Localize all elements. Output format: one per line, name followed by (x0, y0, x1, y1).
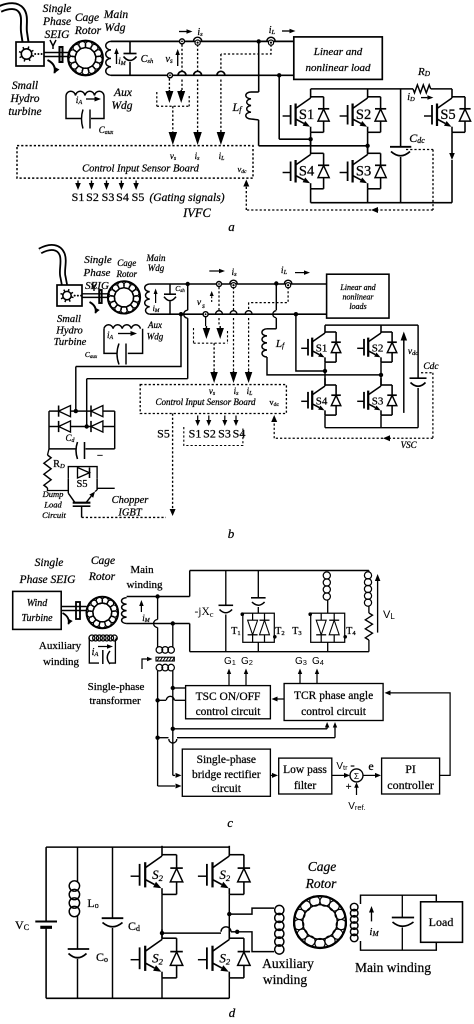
svg-text:(Gating signals): (Gating signals) (149, 192, 224, 204)
svg-text:nonlinear: nonlinear (342, 293, 374, 302)
iM arrow b (155, 294, 157, 303)
svg-text:Vref.: Vref. (348, 801, 366, 812)
svg-text:−: − (97, 450, 103, 462)
inductor Lo (77, 847, 79, 882)
CT is on top bus (193, 37, 201, 41)
load box d (421, 902, 463, 943)
svg-text:nonlinear load: nonlinear load (305, 62, 371, 74)
svg-text:Linear and: Linear and (313, 46, 363, 58)
aux loop c (89, 639, 99, 663)
svg-text:Wdg: Wdg (147, 332, 164, 342)
main winding coil d (350, 903, 358, 911)
svg-text:Low pass: Low pass (283, 764, 327, 776)
svg-text:VSC: VSC (401, 440, 418, 450)
TCR feed wires (173, 728, 327, 730)
svg-text:Cage: Cage (308, 859, 337, 874)
svg-text:transformer: transformer (89, 695, 141, 707)
svg-text:Single: Single (43, 3, 72, 15)
aux loop and Caux b (104, 329, 117, 354)
svg-text:Rotor: Rotor (116, 269, 138, 279)
gating arrows b (197, 416, 199, 421)
capacitor Csh (129, 41, 131, 53)
Vref input (356, 787, 358, 795)
gating signal arrows (77, 181, 79, 184)
svg-text:Cdc: Cdc (423, 362, 439, 372)
left leg mid junction d (161, 895, 163, 939)
svg-text:Phase: Phase (42, 16, 71, 28)
svg-text:Rotor: Rotor (305, 876, 337, 891)
cage rotor b (108, 281, 140, 313)
bridge bottom rail b (325, 427, 418, 429)
svg-text:S3: S3 (356, 164, 371, 180)
dump bottom wires (48, 488, 69, 491)
bridge bottom rail (311, 202, 452, 204)
svg-text:S5: S5 (440, 107, 455, 123)
rectifier box (182, 749, 270, 796)
TSC capacitor branch (257, 571, 259, 598)
bridge top rail b (325, 324, 418, 326)
svg-text:Main: Main (146, 253, 166, 263)
svg-text:S3: S3 (372, 396, 384, 408)
node on top bus for Lf (257, 39, 261, 43)
svg-text:S2: S2 (372, 343, 384, 355)
bridge top rail (311, 88, 413, 90)
svg-text:filter: filter (294, 780, 317, 792)
PI controller box (382, 758, 440, 794)
small hydro turbine box b (57, 285, 82, 306)
svg-text:Σ: Σ (354, 771, 359, 781)
capacitor main d (401, 895, 403, 917)
iL dashed to board (221, 45, 271, 55)
svg-text:winding: winding (126, 579, 163, 591)
svg-text:Control Input Sensor Board: Control Input Sensor Board (82, 163, 200, 174)
aux winding connection wires d (229, 908, 274, 914)
svg-text:S3: S3 (102, 190, 115, 204)
diode bridge dump load (48, 411, 50, 449)
svg-text:bridge rectifier: bridge rectifier (192, 769, 261, 781)
svg-text:a: a (228, 219, 235, 234)
wire to node1 b (296, 314, 325, 371)
resistor RD dump (44, 455, 51, 488)
main circuit wires d (361, 895, 437, 904)
svg-text:d: d (229, 1005, 236, 1020)
svg-text:turbine: turbine (8, 106, 41, 118)
rotation arrow b (90, 302, 96, 313)
node1 junction (310, 132, 312, 145)
svg-text:Turbine: Turbine (54, 337, 87, 348)
wind turbine box (13, 591, 62, 629)
resistor RD (413, 85, 431, 93)
vdc feedback dashed b (421, 372, 433, 374)
top bus b (150, 283, 327, 285)
IGBT S2 bottom-left d (131, 959, 140, 961)
bottom bus b (150, 313, 327, 315)
TCR control box (284, 684, 383, 721)
CT iL on top bus (267, 37, 275, 41)
S4 S3 emitter wires b (324, 415, 326, 428)
svg-text:Single-phase: Single-phase (88, 681, 145, 693)
svg-text:TSC ON/OFF: TSC ON/OFF (196, 691, 261, 703)
svg-text:circuit: circuit (212, 783, 242, 795)
TCR inductor branch (323, 572, 330, 579)
node on bottom bus (277, 73, 281, 77)
svg-text:Single: Single (84, 254, 112, 266)
svg-text:winding: winding (263, 972, 308, 987)
seig top wire c (127, 596, 190, 598)
low pass filter box (279, 758, 332, 794)
svg-text:Hydro: Hydro (55, 326, 82, 337)
dashed bracket S1-S4 (184, 427, 243, 446)
svg-text:SEIG: SEIG (45, 29, 71, 41)
dump load feed wires (179, 312, 183, 316)
svg-text:Cage: Cage (75, 12, 99, 24)
TCR to TSC wire (277, 698, 284, 700)
thyristor pair T3 T4 (311, 613, 345, 642)
S5 emitter arrow down (451, 132, 453, 153)
IGBT S3 (340, 172, 348, 174)
svg-text:S1: S1 (189, 427, 202, 441)
bottom emitters to rail d (161, 978, 163, 998)
IGBT S1 b (301, 347, 308, 349)
chopper S5 with diode (68, 467, 97, 479)
svg-text:TCR phase angle: TCR phase angle (294, 690, 373, 702)
svg-text:c: c (227, 815, 233, 830)
svg-text:-jXc: -jXc (194, 606, 213, 619)
load box Linear and nonlinear load (294, 37, 383, 80)
aux winding coil b (104, 325, 140, 329)
svg-text:Aux: Aux (147, 320, 162, 330)
svg-text:S2: S2 (86, 190, 99, 204)
svg-text:Small: Small (12, 80, 38, 92)
hops on bottom bus (178, 71, 186, 75)
top bus wire (111, 40, 294, 42)
battery VC (35, 920, 57, 922)
svg-text:Vtr: Vtr (336, 761, 348, 772)
main winding coil b (145, 284, 150, 314)
svg-text:Turbine: Turbine (21, 613, 53, 624)
svg-text:Load: Load (43, 500, 62, 510)
svg-text:S5: S5 (76, 479, 87, 490)
aux winding coil c (89, 635, 95, 641)
aux winding coil a (66, 91, 104, 95)
svg-text:s: s (202, 302, 205, 310)
capacitor Cd dump (49, 448, 76, 450)
prime-mover mark (50, 40, 56, 49)
svg-text:Small: Small (57, 314, 81, 325)
iM arrow d (371, 913, 373, 922)
bridge mid nodes b (324, 362, 326, 385)
penstock pipe b (40, 247, 65, 285)
IGBT S1 (283, 115, 291, 117)
is sense b (209, 270, 219, 272)
svg-text:Main: Main (103, 9, 129, 21)
svg-text:loads: loads (349, 302, 366, 311)
svg-text:Rotor: Rotor (88, 571, 116, 583)
is arrow label (179, 31, 187, 33)
rotation arrow c (63, 613, 69, 624)
svg-text:G2: G2 (241, 656, 253, 667)
svg-text:Phase SEIG: Phase SEIG (19, 574, 77, 586)
small hydro turbine box with runner (16, 42, 44, 66)
svg-text:Auxiliary: Auxiliary (262, 956, 314, 971)
capacitor Co (77, 916, 79, 949)
svg-text:+: + (346, 782, 352, 793)
svg-text:Chopper: Chopper (112, 495, 150, 506)
svg-text:Wdg: Wdg (148, 263, 165, 273)
svg-text:Linear and: Linear and (339, 283, 376, 292)
node top bus Lf b (274, 281, 278, 285)
svg-text:S4: S4 (316, 396, 328, 408)
iM arrow (116, 54, 118, 64)
iM arrow c (140, 606, 142, 612)
svg-text:Hydro: Hydro (10, 93, 40, 105)
penstock pipe (0, 6, 26, 42)
vs dashed to board (172, 106, 174, 132)
svg-text:Cage: Cage (91, 555, 115, 567)
svg-text:Auxiliary: Auxiliary (39, 640, 82, 652)
svg-text:G1: G1 (224, 656, 236, 667)
cage rotor (68, 41, 103, 76)
svg-text:S5: S5 (132, 190, 145, 204)
svg-text:winding: winding (43, 656, 80, 668)
svg-text:Main: Main (130, 564, 154, 576)
main winding coil c (122, 598, 127, 624)
svg-text:Single: Single (35, 557, 64, 569)
svg-text:S4: S4 (299, 164, 315, 180)
S5 gating dashed (82, 516, 166, 518)
vdc feedback dashed (406, 149, 433, 151)
prime mover mark b (92, 284, 97, 292)
svg-text:S2: S2 (203, 427, 216, 441)
svg-text:control circuit: control circuit (301, 706, 367, 718)
svg-text:Control Input Sensor Board: Control Input Sensor Board (155, 397, 256, 407)
transformer taps (155, 594, 159, 598)
svc network outline (189, 571, 191, 597)
svg-text:Wdg: Wdg (104, 22, 125, 34)
VL arrow (377, 581, 379, 633)
transformer pointer arrow (142, 659, 148, 669)
shaft with coupling (44, 52, 69, 54)
rect to lpf wire (270, 774, 272, 776)
svg-text:G4: G4 (312, 656, 324, 667)
lpf to summing wire (332, 774, 344, 776)
svg-text:-: - (350, 757, 354, 772)
thyristor pair T1 T2 (243, 613, 274, 642)
shaft c (61, 606, 86, 608)
svg-text:Dump: Dump (42, 489, 64, 499)
vs sense dashed lines and PT box (168, 79, 170, 91)
S4 S3 emitter wires (310, 189, 312, 203)
summing junction (350, 769, 363, 782)
svg-text:Rotor: Rotor (74, 25, 102, 37)
cage rotor d (294, 896, 346, 948)
svg-text:Aux: Aux (113, 87, 133, 99)
node bottom bus to bridge b (294, 312, 298, 316)
svg-text:Circuit: Circuit (42, 510, 66, 520)
svg-text:S1: S1 (299, 107, 314, 123)
outer rails d (46, 846, 229, 848)
capacitor Csh b (169, 284, 171, 294)
svg-text:Wdg: Wdg (111, 100, 132, 112)
control input sensor board (17, 146, 253, 179)
auxiliary winding coil d (275, 905, 284, 914)
left-to-aux bottom wire d (162, 932, 221, 934)
svg-text:e: e (368, 759, 373, 773)
cage rotor c (87, 597, 119, 629)
svg-text:PI: PI (405, 762, 416, 776)
capacitor Cdc b (417, 325, 419, 378)
svg-text:S2: S2 (356, 107, 371, 123)
load branch inductor resistor (368, 571, 370, 573)
wire Lf to bridge node2 (259, 145, 368, 147)
aux loop and Caux a (66, 96, 82, 119)
TSC control box (186, 686, 271, 719)
svg-text:S5: S5 (157, 427, 170, 441)
svg-text:S1: S1 (316, 343, 328, 355)
fixed capacitor branch (225, 571, 227, 606)
rectifier input arrows (173, 774, 175, 776)
svg-text:Phase: Phase (83, 267, 111, 279)
vs tap donut top bus (180, 39, 185, 44)
IGBT S2 top-right d (198, 875, 207, 877)
svg-text:G3: G3 (295, 656, 307, 667)
svg-text:Load: Load (429, 915, 454, 929)
capacitor Cdc (400, 89, 402, 147)
svg-text:b: b (228, 526, 235, 541)
single-phase transformer (156, 647, 163, 654)
vs tap donut bottom bus (168, 73, 173, 78)
svg-text:IVFC: IVFC (182, 206, 211, 220)
svg-text:Single-phase: Single-phase (197, 754, 256, 766)
bottom bus wire (111, 74, 294, 76)
rotation arrow (48, 60, 55, 73)
vdc arrow b (403, 341, 405, 413)
IGBT S3 b (357, 400, 364, 402)
sensor board b (140, 385, 286, 414)
main winding coil (106, 41, 111, 75)
svg-text:Cage: Cage (117, 258, 136, 268)
inductor Lf b (275, 284, 277, 311)
IGBT S2 (340, 115, 348, 117)
inductor Lf (258, 41, 260, 92)
is dashed to board (197, 45, 199, 72)
capacitor Cd (112, 847, 114, 918)
right leg mid junction d (228, 895, 230, 939)
PI feedback to TCR (390, 693, 450, 776)
IGBT S2 top-left d (131, 875, 140, 877)
svg-text:controller: controller (387, 778, 434, 792)
wire bus to bridge node1 (278, 75, 280, 139)
svg-text:control circuit: control circuit (196, 706, 262, 718)
IGBT S5 (424, 115, 432, 117)
svg-text:Wind: Wind (27, 598, 49, 609)
seig bottom wire c (127, 623, 190, 625)
vs tap b (203, 312, 208, 317)
svg-text:Main winding: Main winding (355, 960, 431, 975)
svg-text:S1: S1 (72, 190, 85, 204)
IGBT S4 b (301, 400, 308, 402)
node2 junction (367, 132, 369, 153)
shaft b (82, 293, 108, 295)
load box b (327, 274, 389, 318)
svg-text:S3: S3 (218, 427, 231, 441)
IGBT S4 (283, 172, 291, 174)
IGBT S2 b (357, 347, 364, 349)
IGBT S2 bottom-right d (198, 959, 207, 961)
svg-text:S4: S4 (116, 190, 129, 204)
transformer secondary wires (157, 671, 159, 700)
svg-text:SEIG: SEIG (85, 280, 109, 292)
summing to PI wire (363, 774, 375, 776)
